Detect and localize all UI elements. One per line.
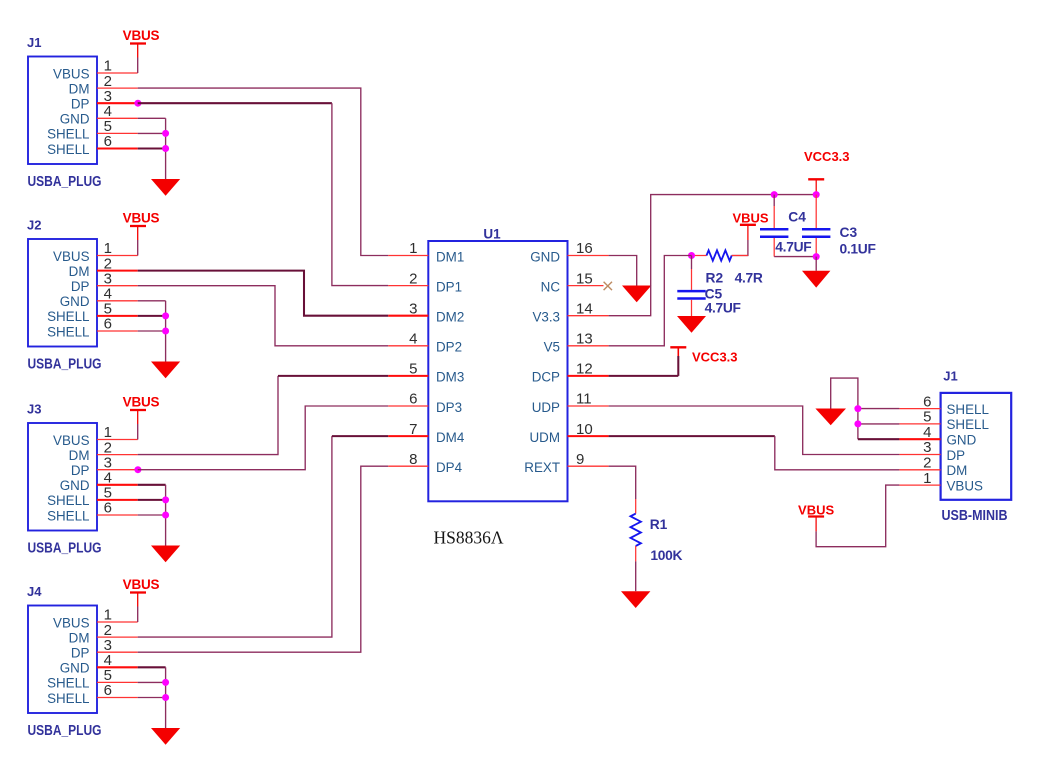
- wire J4 pin1 VBUS to power symbol: [137, 593, 139, 623]
- svg-text:6: 6: [104, 682, 112, 699]
- svg-text:SHELL: SHELL: [47, 493, 89, 508]
- wire J1 GND/SHELL bus to ground: [138, 118, 166, 179]
- svg-text:DP1: DP1: [436, 279, 462, 294]
- svg-text:6: 6: [104, 316, 112, 333]
- svg-text:DP: DP: [71, 97, 90, 112]
- resistor R2 4.7R: [692, 250, 748, 260]
- svg-text:DM: DM: [947, 463, 968, 478]
- svg-text:GND: GND: [60, 478, 90, 493]
- svg-text:USB-MINIB: USB-MINIB: [942, 508, 1008, 524]
- svg-text:3: 3: [409, 300, 417, 317]
- ground symbol (R1): [621, 591, 650, 608]
- wire J4 GND/SHELL bus to ground: [138, 667, 166, 728]
- svg-text:15: 15: [576, 270, 593, 287]
- svg-text:6: 6: [104, 500, 112, 517]
- junction dot J2 SHELL pin5: [162, 312, 169, 319]
- svg-text:J1: J1: [27, 35, 41, 50]
- svg-text:SHELL: SHELL: [947, 417, 989, 432]
- svg-text:V3.3: V3.3: [532, 310, 560, 325]
- svg-text:DP: DP: [71, 279, 90, 294]
- wire U1.DCP pin12 to VCC3.3: [609, 347, 679, 376]
- no-connect X on U1 pin 15: [604, 282, 612, 290]
- wire SHELL pin6 to shell bus: [858, 408, 900, 410]
- svg-text:0.1UF: 0.1UF: [840, 241, 876, 256]
- wire U1.UDM pin10 to USB-MINIB DM: [609, 436, 900, 470]
- svg-text:C5: C5: [705, 286, 723, 301]
- svg-text:VCC3.3: VCC3.3: [692, 350, 738, 365]
- junction dot J4 SHELL pin5: [162, 679, 169, 686]
- U1 left pins 1-8 with numbers: [388, 240, 465, 475]
- capacitor C4 4.7UF: [760, 195, 788, 257]
- capacitor C5 4.7UF: [677, 256, 705, 317]
- junction dot R2/C5/V5: [688, 252, 695, 259]
- svg-text:DM: DM: [69, 630, 90, 645]
- svg-text:DM1: DM1: [436, 249, 464, 264]
- wire J2.DP to U1.DP2: [138, 286, 389, 346]
- svg-text:5: 5: [409, 361, 417, 378]
- svg-text:DP3: DP3: [436, 400, 462, 415]
- J1 pins 1-6 with numbers: [97, 58, 138, 151]
- svg-text:SHELL: SHELL: [47, 127, 89, 142]
- svg-text:DP: DP: [947, 448, 966, 463]
- power symbol VBUS (R2): [732, 211, 768, 226]
- power symbol VCC3.3 (DCP): [670, 347, 737, 364]
- svg-text:DM2: DM2: [436, 310, 464, 325]
- svg-text:SHELL: SHELL: [47, 508, 89, 523]
- wire J2 GND/SHELL bus to ground: [138, 301, 166, 362]
- svg-text:DM4: DM4: [436, 430, 465, 445]
- ground symbol (J1): [151, 179, 180, 196]
- wire VBUS to R2 right: [732, 225, 748, 256]
- wire J1.DP to U1.DP1: [138, 103, 389, 285]
- op-amp/IC U1 HS8836A body: [428, 241, 567, 501]
- J4 pins 1-6 with numbers: [97, 607, 138, 700]
- connector J1 USB-MINIB body: [941, 393, 1012, 500]
- svg-text:12: 12: [576, 361, 593, 378]
- svg-text:SHELL: SHELL: [947, 402, 989, 417]
- svg-text:J4: J4: [27, 584, 42, 599]
- wire SHELL pin5 to shell bus: [858, 423, 900, 425]
- svg-text:DP2: DP2: [436, 340, 462, 355]
- junction dot J1 SHELL pin5: [162, 130, 169, 137]
- power symbol VCC3.3 (top): [804, 149, 850, 195]
- svg-text:7: 7: [409, 421, 417, 438]
- svg-text:GND: GND: [530, 249, 560, 264]
- svg-text:REXT: REXT: [524, 460, 560, 475]
- wire U1.GND pin16 to ground: [609, 256, 637, 286]
- svg-text:VBUS: VBUS: [123, 211, 160, 226]
- svg-text:6: 6: [104, 133, 112, 150]
- svg-text:4: 4: [409, 331, 417, 348]
- svg-text:10: 10: [576, 421, 593, 438]
- svg-text:DM: DM: [69, 81, 90, 96]
- svg-text:SHELL: SHELL: [47, 309, 89, 324]
- ground symbol (C3/C4): [802, 271, 830, 288]
- svg-text:4.7UF: 4.7UF: [705, 300, 741, 315]
- junction dot shell pin6: [854, 405, 861, 412]
- svg-text:USBA_PLUG: USBA_PLUG: [28, 174, 102, 190]
- svg-text:UDM: UDM: [530, 430, 561, 445]
- svg-text:VBUS: VBUS: [947, 478, 984, 493]
- ground symbol (J3): [151, 546, 180, 563]
- svg-text:VBUS: VBUS: [123, 395, 160, 410]
- svg-text:9: 9: [576, 451, 584, 468]
- svg-text:16: 16: [576, 240, 593, 257]
- svg-text:100K: 100K: [650, 548, 682, 563]
- svg-text:1: 1: [923, 470, 931, 487]
- junction dot VCC3.3 rail / C4: [771, 191, 778, 198]
- svg-text:13: 13: [576, 331, 593, 348]
- svg-text:14: 14: [576, 300, 593, 317]
- svg-text:1: 1: [409, 240, 417, 257]
- svg-text:GND: GND: [60, 112, 90, 127]
- power symbol VBUS (USB-MINIB): [798, 503, 834, 518]
- svg-text:V5: V5: [544, 340, 560, 355]
- svg-text:UDP: UDP: [532, 400, 560, 415]
- connector J2 USBA_PLUG body: [28, 239, 97, 347]
- ground symbol (U1 GND pin16): [622, 286, 651, 303]
- ground symbol (J4): [151, 728, 180, 745]
- svg-text:U1: U1: [483, 226, 501, 241]
- capacitor C3 0.1UF: [802, 195, 830, 257]
- junction dot J3 SHELL pin5: [162, 496, 169, 503]
- svg-text:11: 11: [576, 391, 592, 408]
- svg-text:VBUS: VBUS: [798, 503, 834, 518]
- svg-text:6: 6: [409, 391, 417, 408]
- power symbol VBUS (J4): [123, 577, 160, 593]
- wire J2 pin1 VBUS to power symbol: [137, 226, 139, 256]
- svg-text:J1: J1: [943, 369, 957, 384]
- junction dot J1 SHELL pin6: [162, 145, 169, 152]
- svg-text:VBUS: VBUS: [53, 433, 90, 448]
- wire C3/C4 bottom to ground: [815, 257, 817, 271]
- wire J3 GND/SHELL bus to ground: [138, 485, 166, 546]
- wire U1.V3.3 pin14 to VCC3.3 rail: [609, 195, 817, 316]
- junction dot VCC3.3 rail / C3: [813, 191, 820, 198]
- svg-text:VBUS: VBUS: [123, 28, 160, 43]
- svg-text:C3: C3: [840, 225, 858, 240]
- J2 pins 1-6 with numbers: [97, 240, 138, 333]
- wire J2.DM to U1.DM2: [138, 271, 389, 316]
- svg-text:SHELL: SHELL: [47, 324, 89, 339]
- svg-text:DP: DP: [71, 646, 90, 661]
- svg-text:VBUS: VBUS: [53, 615, 90, 630]
- ground symbol (USB-MINIB shell): [815, 409, 846, 426]
- svg-text:DCP: DCP: [532, 370, 560, 385]
- svg-text:R2: R2: [706, 270, 724, 285]
- wire C4 bottom to C3 bottom: [774, 256, 816, 258]
- power symbol VBUS (J3): [123, 395, 160, 411]
- wire J3.DM to U1.DM3: [138, 376, 389, 455]
- junction dot J3 SHELL pin6: [162, 512, 169, 519]
- svg-text:VBUS: VBUS: [53, 249, 90, 264]
- svg-text:HS8836Λ: HS8836Λ: [434, 528, 504, 548]
- U1 right pins 16-9 with numbers: [524, 240, 608, 475]
- svg-text:VBUS: VBUS: [732, 211, 768, 226]
- svg-text:GND: GND: [60, 294, 90, 309]
- svg-text:SHELL: SHELL: [47, 142, 89, 157]
- junction dot J4 SHELL pin6: [162, 694, 169, 701]
- svg-text:SHELL: SHELL: [47, 676, 89, 691]
- svg-text:VBUS: VBUS: [53, 66, 90, 81]
- connector J3 USBA_PLUG body: [28, 423, 97, 531]
- wire shell bus to GND pin4: [858, 409, 900, 440]
- junction dot J2 SHELL pin6: [162, 328, 169, 335]
- junction dot C3 bottom: [813, 253, 820, 260]
- wire J3 pin1 VBUS to power symbol: [137, 410, 139, 440]
- power symbol VBUS (J2): [123, 211, 160, 227]
- svg-text:DP: DP: [71, 463, 90, 478]
- wire shell bus hook to ground: [831, 378, 858, 409]
- connector J4 USBA_PLUG body: [28, 606, 97, 714]
- ground symbol (C5): [677, 316, 706, 333]
- svg-text:USBA_PLUG: USBA_PLUG: [28, 357, 102, 373]
- svg-text:J3: J3: [27, 401, 41, 416]
- svg-text:8: 8: [409, 451, 417, 468]
- svg-text:4.7R: 4.7R: [735, 270, 763, 285]
- svg-text:DM3: DM3: [436, 370, 464, 385]
- junction dot J3 DP: [134, 466, 141, 473]
- power symbol VBUS (J1): [123, 28, 160, 44]
- wire J4.DP to U1.DP4: [138, 466, 389, 652]
- svg-text:C4: C4: [788, 209, 806, 224]
- svg-text:VCC3.3: VCC3.3: [804, 149, 850, 164]
- wire VBUS symbol to USB-MINIB pin1: [816, 485, 899, 547]
- USB-MINIB pins 6-1 with numbers: [899, 393, 940, 487]
- svg-text:USBA_PLUG: USBA_PLUG: [28, 541, 102, 557]
- svg-text:GND: GND: [60, 661, 90, 676]
- svg-text:2: 2: [409, 270, 417, 287]
- svg-text:GND: GND: [947, 433, 977, 448]
- svg-text:4.7UF: 4.7UF: [775, 239, 811, 254]
- wire R1 bottom to ground: [635, 546, 637, 591]
- svg-text:NC: NC: [541, 279, 561, 294]
- svg-text:SHELL: SHELL: [47, 691, 89, 706]
- svg-text:R1: R1: [650, 517, 668, 532]
- wire J1.DM to U1.DM1: [138, 88, 389, 255]
- junction dot shell pin5: [854, 420, 861, 427]
- ground symbol (J2): [151, 362, 180, 379]
- wire J3.DP to U1.DP3: [138, 406, 389, 470]
- wire U1.UDP pin11 to USB-MINIB DP: [609, 406, 900, 455]
- svg-text:DM: DM: [69, 448, 90, 463]
- J3 pins 1-6 with numbers: [97, 424, 138, 517]
- junction dot J1 DP: [134, 100, 141, 107]
- wire J4.DM to U1.DM4: [138, 436, 389, 637]
- svg-text:USBA_PLUG: USBA_PLUG: [28, 723, 102, 739]
- wire U1.V5 pin13 to R2/C5 junction: [609, 256, 692, 346]
- svg-text:DM: DM: [69, 264, 90, 279]
- wire J1 pin1 VBUS to power symbol: [137, 44, 139, 74]
- resistor R1 100K: [631, 514, 641, 546]
- svg-text:J2: J2: [27, 217, 41, 232]
- svg-text:VBUS: VBUS: [123, 577, 160, 592]
- wire U1.REXT pin9 to R1: [609, 466, 636, 513]
- connector J1 USBA_PLUG body: [28, 57, 97, 165]
- svg-text:DP4: DP4: [436, 460, 463, 475]
